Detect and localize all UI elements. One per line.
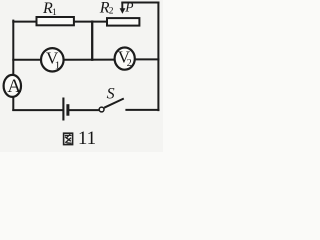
svg-text:1: 1: [52, 8, 57, 18]
switch S pivot: [99, 107, 104, 112]
wire top rail middle segment: [74, 21, 108, 23]
svg-text:S: S: [107, 85, 115, 102]
wire slider top connector: [122, 2, 158, 4]
svg-text:P: P: [124, 0, 133, 15]
caption glyph TU (figure): [64, 133, 73, 144]
wire top rail left segment: [13, 21, 37, 23]
switch S lever: [104, 99, 124, 108]
resistor R1: [37, 17, 74, 25]
battery short plate: [66, 104, 69, 116]
wire left vertical lower: [12, 97, 14, 110]
wire bottom rail left: [13, 109, 62, 111]
wire left vertical upper: [12, 21, 14, 75]
rheostat R2: [107, 18, 139, 26]
wire bottom rail middle: [70, 109, 99, 111]
wire second rail segment 1: [13, 59, 41, 61]
svg-text:2: 2: [109, 7, 114, 17]
ammeter A: [4, 75, 21, 97]
wire bottom rail right: [126, 109, 158, 111]
wire second rail segment 2: [64, 59, 115, 61]
rheostat slider arrow: [121, 3, 123, 10]
svg-text:11: 11: [78, 128, 96, 149]
voltmeter V1: [41, 48, 64, 71]
svg-text:A: A: [7, 76, 21, 97]
wire second rail segment 3: [135, 58, 158, 60]
svg-text:1: 1: [55, 60, 61, 72]
voltmeter V2: [115, 48, 135, 70]
wire right vertical: [157, 3, 159, 111]
wire middle vertical: [91, 22, 93, 60]
battery long plate: [62, 98, 64, 121]
svg-text:2: 2: [127, 58, 132, 69]
